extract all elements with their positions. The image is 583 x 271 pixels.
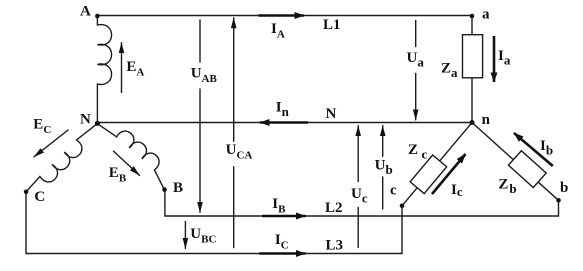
current arrow In xyxy=(260,121,308,124)
winding EA (phase A coil) xyxy=(97,17,111,123)
voltage arrow UAB xyxy=(199,20,201,62)
current arrow IB xyxy=(262,215,306,218)
node a xyxy=(470,14,475,19)
svg-text:IA: IA xyxy=(271,21,285,41)
svg-text:L1: L1 xyxy=(323,17,341,33)
svg-text:Za: Za xyxy=(441,61,458,81)
resistor Zc box (rotated) xyxy=(410,155,447,194)
svg-text:Ia: Ia xyxy=(498,48,511,68)
node n xyxy=(470,120,475,125)
node B xyxy=(162,187,167,192)
svg-text:EC: EC xyxy=(33,117,51,137)
voltage arrow Ua xyxy=(415,21,417,47)
node N (star point) xyxy=(95,121,100,126)
wire L2 xyxy=(165,190,559,217)
svg-text:A: A xyxy=(80,4,91,20)
voltage arrow Uc xyxy=(357,126,359,182)
svg-text:N: N xyxy=(80,112,91,128)
svg-text:UBC: UBC xyxy=(190,226,216,246)
svg-text:Ub: Ub xyxy=(375,158,393,178)
svg-text:In: In xyxy=(276,100,290,120)
winding EB (phase B coil, N to B) xyxy=(97,124,164,190)
svg-text:B: B xyxy=(173,180,183,196)
svg-text:C: C xyxy=(34,189,45,205)
svg-text:a: a xyxy=(482,7,490,23)
svg-text:EA: EA xyxy=(126,59,144,79)
current arrow Ia xyxy=(493,36,496,82)
svg-text:Zc: Zc xyxy=(408,142,428,162)
wire L1 top A to a xyxy=(97,15,472,17)
svg-text:EB: EB xyxy=(109,165,127,185)
svg-text:Ic: Ic xyxy=(451,182,463,199)
node c xyxy=(400,204,405,209)
svg-text:b: b xyxy=(560,180,568,196)
emf arrow EA xyxy=(121,43,123,93)
svg-text:N: N xyxy=(326,106,337,122)
emf arrow EB xyxy=(114,151,140,175)
voltage arrow UBC xyxy=(184,221,186,248)
voltage arrow UCA xyxy=(233,18,235,142)
resistor Za box xyxy=(463,35,483,78)
svg-text:Ua: Ua xyxy=(407,50,425,70)
svg-text:Zb: Zb xyxy=(498,177,516,197)
node A xyxy=(95,14,100,19)
svg-text:IB: IB xyxy=(272,196,286,216)
wire neutral N to n xyxy=(97,122,472,124)
resistor Zb box (rotated) xyxy=(508,151,546,188)
svg-text:L3: L3 xyxy=(326,238,344,254)
svg-text:Ib: Ib xyxy=(540,138,553,158)
winding EC (phase C coil, N to C) xyxy=(26,124,97,192)
current arrow Ic xyxy=(432,154,466,194)
current arrow IA xyxy=(258,14,304,17)
svg-text:UAB: UAB xyxy=(191,66,218,86)
current arrow IC xyxy=(259,252,305,255)
node C xyxy=(24,190,29,195)
svg-text:IC: IC xyxy=(275,232,289,252)
emf arrow EC xyxy=(34,130,68,157)
node b xyxy=(556,198,561,203)
wire L3 xyxy=(26,192,402,254)
svg-text:UCA: UCA xyxy=(226,142,253,162)
wire a to n through Za xyxy=(471,16,473,123)
wire n to b xyxy=(472,123,559,201)
svg-text:c: c xyxy=(390,183,397,199)
wire n to c xyxy=(402,123,472,206)
voltage arrow Ub xyxy=(382,126,384,157)
svg-text:Uc: Uc xyxy=(351,186,368,206)
current arrow Ib xyxy=(514,133,553,166)
svg-text:L2: L2 xyxy=(325,200,343,216)
svg-text:n: n xyxy=(482,112,491,128)
